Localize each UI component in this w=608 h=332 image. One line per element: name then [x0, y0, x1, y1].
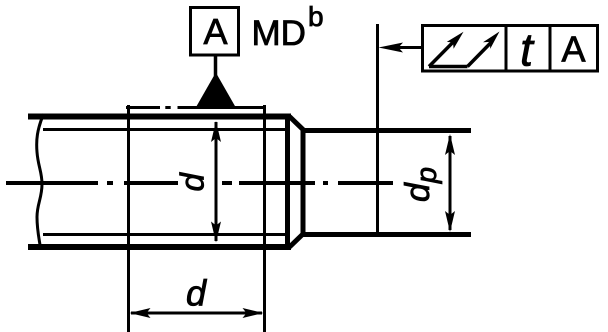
extension line left (dimension d) — [127, 105, 130, 332]
dimension d arrow up — [211, 121, 221, 142]
tolerance frame outer box — [423, 26, 598, 72]
dimension d_p arrow up — [445, 134, 455, 155]
pilot bottom edge — [301, 232, 472, 237]
leader arrowhead (points left) — [379, 43, 404, 53]
bottom dimension arrow right — [243, 308, 264, 318]
datum target area chain line (above thread) — [126, 106, 264, 109]
svg-text:d: d — [174, 172, 211, 192]
centerline (shaft axis, dash-dot) — [6, 181, 393, 185]
tolerance frame divider 1 — [505, 24, 508, 71]
thread root bottom line (thin) — [43, 233, 288, 236]
datum leader — [214, 56, 218, 76]
thread end face (vertical) — [285, 114, 290, 251]
svg-text:d: d — [186, 273, 207, 314]
datum feature symbol box — [191, 8, 239, 56]
svg-text:A: A — [203, 11, 227, 52]
extension line for runout leader — [376, 24, 379, 237]
datum triangle (filled) — [196, 73, 236, 108]
bottom chamfer — [290, 233, 305, 247]
bottom dimension arrow left — [130, 308, 151, 318]
thread root top line (thin) — [43, 128, 288, 131]
dimension d arrow down — [211, 222, 221, 243]
dimension d (vertical) line — [215, 130, 218, 234]
pilot top edge — [301, 128, 472, 133]
shaft outline: thread major diameter top edge — [28, 114, 291, 120]
shaft outline: thread major diameter bottom edge — [28, 244, 291, 250]
dimension d_p arrow down — [445, 211, 455, 232]
extension line right (dimension d) — [263, 105, 266, 332]
break line (left wavy) — [37, 114, 44, 248]
dimension d (horizontal, bottom) line — [131, 312, 262, 315]
svg-text:t: t — [520, 24, 535, 76]
chamfer-pilot junction (vertical) — [301, 128, 306, 237]
dimension d_p (vertical) line — [449, 136, 452, 230]
leader from frame to extension line — [398, 46, 423, 49]
top chamfer — [290, 117, 305, 131]
total runout symbol — [429, 39, 492, 66]
svg-text:b: b — [308, 1, 324, 32]
svg-text:A: A — [561, 29, 585, 70]
tolerance frame divider 2 — [549, 24, 552, 71]
svg-text:MD: MD — [252, 14, 306, 53]
